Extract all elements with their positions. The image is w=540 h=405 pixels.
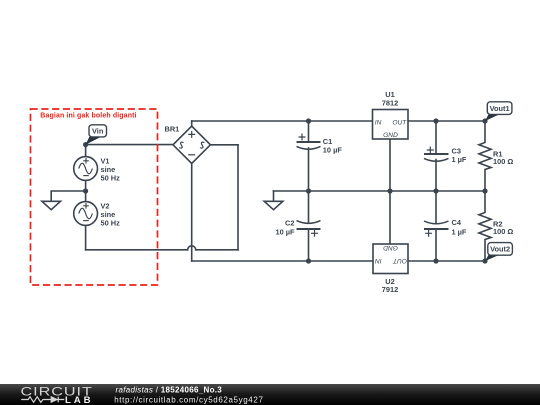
rectifier BR1 xyxy=(173,126,210,163)
svg-text:GND: GND xyxy=(383,132,398,139)
label V1 xyxy=(101,157,121,183)
ground symbol GND2 at middle rail xyxy=(264,201,283,209)
svg-text:Vout2: Vout2 xyxy=(490,245,510,254)
svg-text:C2: C2 xyxy=(285,218,294,227)
wire U2 GND lead xyxy=(389,191,391,244)
svg-text:http://circuitlab.com/cy5d62a5: http://circuitlab.com/cy5d62a5yg427 xyxy=(114,396,263,405)
svg-text:OUT: OUT xyxy=(392,257,407,264)
svg-text:IN: IN xyxy=(375,119,382,126)
source V1 xyxy=(74,157,98,181)
wire U1 OUT to Vout1 xyxy=(408,120,485,122)
label U2 xyxy=(382,277,398,294)
wire C2 bottom lead xyxy=(308,229,310,261)
svg-text:GND: GND xyxy=(383,244,398,251)
wire top rail to U1 IN xyxy=(192,120,373,122)
svg-text:C4: C4 xyxy=(452,218,462,227)
wire AC2 horizontal right part xyxy=(196,249,238,251)
wire AC2 horizontal left part xyxy=(86,249,188,251)
wire bottom rail to U2 IN xyxy=(192,260,373,262)
wire C3 bottom lead xyxy=(435,160,437,192)
footer bar xyxy=(0,384,540,405)
wire V1 bottom to V2 top xyxy=(85,180,87,201)
svg-text:10 µF: 10 µF xyxy=(275,227,295,236)
wire C4 top lead xyxy=(435,191,437,223)
wire right vertical down xyxy=(237,145,239,250)
regulator U2 xyxy=(373,244,408,274)
svg-text:Vin: Vin xyxy=(92,127,104,136)
label V2 xyxy=(101,202,121,228)
wire U1 GND lead xyxy=(389,139,391,191)
svg-text:IN: IN xyxy=(375,257,382,264)
svg-text:100 Ω: 100 Ω xyxy=(493,227,513,236)
svg-text:50 Hz: 50 Hz xyxy=(101,219,121,228)
flag Vout2 xyxy=(485,243,512,261)
wire C1 top lead xyxy=(308,121,310,142)
wire C2 top lead xyxy=(308,191,310,222)
capacitor C1 xyxy=(297,134,321,150)
pin labels U1 xyxy=(375,119,407,139)
label C2 xyxy=(275,218,295,236)
wire BR1 bottom vertex down xyxy=(191,164,193,262)
wire C1 bottom lead xyxy=(308,148,310,191)
label R1 xyxy=(493,149,513,166)
wire ground stub at sources xyxy=(51,191,86,201)
capacitor C4 xyxy=(424,221,449,237)
svg-text:OUT: OUT xyxy=(392,119,407,126)
svg-text:Bagian ini gak boleh diganti: Bagian ini gak boleh diganti xyxy=(40,112,136,119)
wire U2 OUT to Vout2 xyxy=(408,260,485,262)
flag Vout1 xyxy=(485,102,512,121)
label R2 xyxy=(493,219,513,236)
svg-text:100 Ω: 100 Ω xyxy=(493,157,513,166)
pin labels U2 (rotated) xyxy=(375,244,407,264)
resistor R1 xyxy=(479,121,491,191)
capacitor C3 xyxy=(424,147,449,162)
wire C3 top lead xyxy=(435,121,437,154)
wire ground stub at middle rail xyxy=(273,191,275,201)
resistor R2 xyxy=(479,191,491,261)
label C1 xyxy=(323,137,343,155)
svg-text:7912: 7912 xyxy=(382,285,398,294)
wire Vin node to V1 top xyxy=(85,145,87,157)
node junction dots xyxy=(83,118,488,263)
label C4 xyxy=(452,218,467,236)
wire middle ground rail xyxy=(274,190,486,192)
wire Vin node to BR1 left xyxy=(86,144,173,146)
svg-text:1 µF: 1 µF xyxy=(452,227,467,236)
svg-text:1 µF: 1 µF xyxy=(452,155,467,164)
wire BR1 top stub xyxy=(191,121,193,126)
svg-text:10 µF: 10 µF xyxy=(323,145,343,154)
wire hop over BR1 minus line xyxy=(188,246,196,250)
label U1 xyxy=(382,90,398,107)
regulator U1 xyxy=(373,110,409,140)
wire C4 bottom lead xyxy=(435,229,437,261)
svg-text:Vout1: Vout1 xyxy=(490,104,510,113)
flag Vin xyxy=(86,125,107,145)
label C3 xyxy=(452,146,467,164)
svg-text:7812: 7812 xyxy=(382,99,398,108)
ground symbol GND1 near sources xyxy=(42,201,61,209)
source V2 xyxy=(74,202,98,226)
svg-text:rafadistas / 18524066_No.3: rafadistas / 18524066_No.3 xyxy=(116,385,223,394)
svg-text:50 Hz: 50 Hz xyxy=(101,174,121,183)
svg-text:BR1: BR1 xyxy=(165,124,180,133)
wire BR1 right vertex to corner xyxy=(210,144,238,146)
logo resistor-diode glyph xyxy=(21,397,64,403)
wire V2 bottom down xyxy=(85,225,87,249)
svg-text:LAB: LAB xyxy=(65,395,93,405)
annotation red dashed box xyxy=(31,109,158,285)
capacitor C2 xyxy=(297,221,321,237)
